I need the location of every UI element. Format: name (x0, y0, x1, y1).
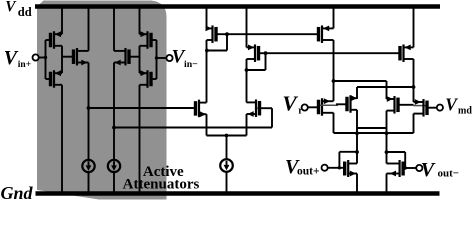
svg-text:Attenuators: Attenuators (123, 176, 200, 192)
svg-text:V: V (421, 159, 436, 181)
svg-text:out−: out− (438, 168, 460, 180)
svg-text:V: V (445, 95, 458, 115)
svg-text:in+: in+ (18, 60, 31, 70)
svg-text:in−: in− (184, 59, 198, 70)
svg-text:V: V (282, 91, 298, 115)
svg-text:out+: out+ (297, 166, 320, 178)
svg-text:V: V (5, 0, 17, 15)
svg-text:md: md (458, 106, 472, 117)
svg-text:Gnd: Gnd (1, 183, 34, 202)
svg-text:V: V (4, 47, 19, 69)
svg-text:dd: dd (18, 5, 32, 19)
svg-text:r: r (298, 106, 303, 117)
